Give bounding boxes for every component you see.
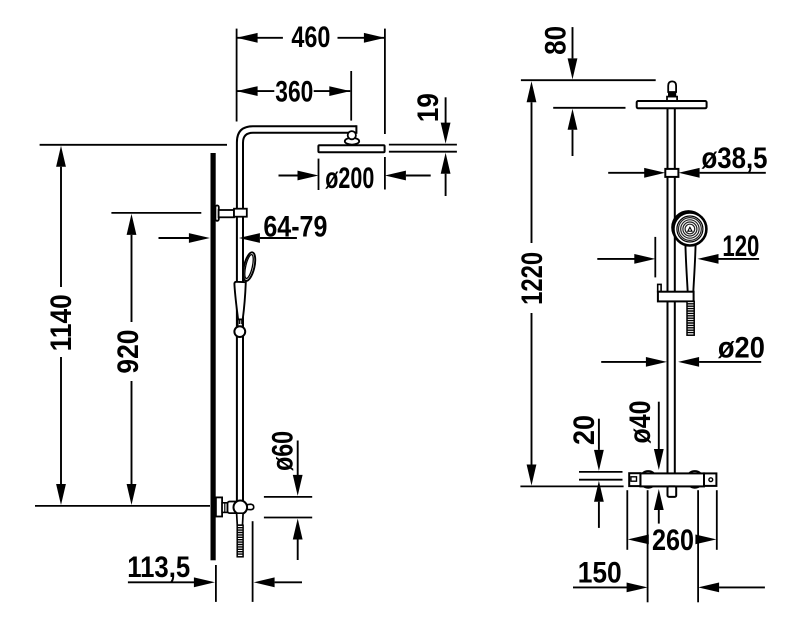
dimension 19 <box>389 93 457 196</box>
dimension ø40 <box>624 401 664 524</box>
dimension 460 <box>237 21 385 134</box>
dimension ø38,5 <box>608 142 767 178</box>
svg-text:113,5: 113,5 <box>127 551 190 584</box>
dimension 64-79 <box>159 211 328 244</box>
hand shower in holder (left view) <box>234 251 257 337</box>
riser pipe with top arm (left view) <box>237 125 357 504</box>
svg-text:20: 20 <box>568 415 601 445</box>
dimension ø200 <box>279 157 431 195</box>
svg-text:19: 19 <box>412 93 445 122</box>
slider holder (right view) <box>658 284 694 301</box>
svg-text:360: 360 <box>275 76 313 109</box>
svg-text:64-79: 64-79 <box>263 211 327 244</box>
shut-off valve (left view) <box>216 497 254 516</box>
thermostat outlet (right view) <box>668 486 677 497</box>
svg-text:ø60: ø60 <box>267 431 300 471</box>
dimension ø20 <box>601 331 765 366</box>
thermostat left knob (right view) <box>629 473 640 486</box>
riser pipe (right view) <box>668 108 675 473</box>
svg-text:120: 120 <box>722 230 759 263</box>
hand shower face (right view) <box>672 211 706 245</box>
ribbed shower hose (left view) <box>237 525 243 557</box>
dimension ø60 <box>264 431 312 560</box>
thermostat union nuts (right view) <box>640 471 703 488</box>
diverter knob (right view) <box>667 81 677 101</box>
dimension 920 <box>111 213 201 505</box>
dimension 1140 <box>35 145 227 506</box>
dimension 1220 <box>516 81 623 486</box>
svg-text:920: 920 <box>112 330 145 374</box>
svg-text:460: 460 <box>291 21 330 54</box>
dimension 120 <box>597 230 759 277</box>
hand shower handle (right view) <box>685 240 695 292</box>
svg-text:ø40: ø40 <box>624 401 657 444</box>
ribbed shower hose (right view) <box>687 301 694 335</box>
svg-text:1220: 1220 <box>516 252 549 305</box>
svg-text:ø20: ø20 <box>718 331 765 364</box>
svg-text:80: 80 <box>540 26 573 55</box>
dimension 113,5 <box>127 521 302 602</box>
svg-text:150: 150 <box>578 557 622 590</box>
dimension 20 (right view) <box>568 415 623 528</box>
dimension 360 <box>237 71 352 121</box>
dimension 150 <box>573 490 765 602</box>
wall bracket (left view) <box>215 205 246 220</box>
svg-text:1140: 1140 <box>45 294 78 351</box>
pipe fitting ø38,5 (right view) <box>665 169 678 177</box>
wall panel (left view) <box>211 153 216 560</box>
thermostat right knob (right view) <box>704 473 716 486</box>
dimension 260 <box>627 490 717 557</box>
ball joint of overhead shower (left view) <box>345 131 359 145</box>
overhead shower plate (right view) <box>637 101 707 108</box>
svg-text:ø200: ø200 <box>325 162 374 195</box>
dimension 80 <box>521 26 656 156</box>
hose outlet connector (left view) <box>237 513 244 525</box>
thermostat body (right view) <box>640 473 704 486</box>
overhead shower plate (left view) <box>318 145 384 152</box>
svg-text:ø38,5: ø38,5 <box>702 142 768 175</box>
svg-text:260: 260 <box>652 524 694 557</box>
